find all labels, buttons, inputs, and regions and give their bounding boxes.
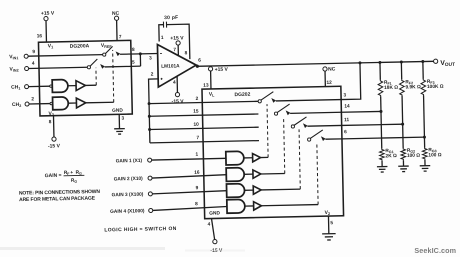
- node RF1/RG1: [379, 110, 382, 113]
- switch S202 lever: [277, 104, 290, 112]
- label RG1: [385, 148, 393, 154]
- wire GAIN 2 (X10) to driver: [152, 175, 226, 178]
- resistor RG1: [379, 148, 384, 160]
- label GAIN 1 (X1): [116, 158, 143, 165]
- value RG2: [407, 153, 420, 159]
- gain formula text: [45, 173, 62, 179]
- wire node to RG2: [402, 124, 404, 148]
- ground symbol RG1: [377, 167, 388, 173]
- label V1 (DG200A pin 16 supply): [48, 43, 54, 49]
- resistor RF3: [421, 79, 426, 96]
- driver 1 AND gate (DG200A): [52, 79, 68, 92]
- ground symbol RG2: [398, 166, 409, 172]
- svg-text:6: 6: [198, 58, 201, 64]
- pin label 13: [203, 83, 209, 89]
- wire DG200A V2 pin 8 stub: [53, 116, 55, 137]
- svg-text:VIN1: VIN1: [9, 54, 18, 60]
- label RG3: [428, 147, 436, 153]
- svg-text:5: 5: [330, 220, 333, 226]
- switch S2 contact arrow: [100, 64, 105, 69]
- driver 2 AND gate (DG202): [226, 168, 244, 182]
- control dashed line to S201: [267, 104, 268, 157]
- wire AND to buffer (DG202 driver 4): [245, 205, 254, 207]
- wire GAIN 1 (X1) to driver: [152, 158, 226, 160]
- value RF1: [384, 85, 398, 91]
- pin label 3 (DG200A GND): [121, 116, 124, 122]
- wire pin11 to RF2/RG2 node: [342, 124, 403, 125]
- svg-text:DG202: DG202: [234, 92, 250, 98]
- op-amp U2 LM101A triangle: [157, 44, 196, 87]
- wire pin16 +15V to DG200A: [45, 21, 47, 42]
- note text line 1: [19, 189, 101, 197]
- svg-text:100 Ω: 100 Ω: [428, 152, 441, 158]
- wire rail to RF3: [422, 62, 424, 79]
- svg-text:SeekIC.com: SeekIC.com: [414, 246, 456, 255]
- label -15 V (DG200A): [48, 143, 61, 149]
- svg-text:LOGIC HIGH = SWITCH ON: LOGIC HIGH = SWITCH ON: [104, 226, 177, 234]
- ground symbol (DG200A pin 3): [114, 129, 125, 135]
- terminal NC (DG202 pin 12): [323, 67, 327, 71]
- gain formula denominator: [71, 178, 78, 184]
- label VOUT: [440, 60, 455, 68]
- label GND (DG202): [209, 210, 220, 216]
- value RG1: [385, 153, 397, 159]
- logic high note: [104, 226, 177, 234]
- svg-text:GAIN 2 (X10): GAIN 2 (X10): [114, 176, 144, 183]
- svg-text:GAIN 3 (X100): GAIN 3 (X100): [112, 192, 144, 199]
- svg-text:GAIN 1 (X1): GAIN 1 (X1): [116, 158, 143, 165]
- svg-text:8: 8: [195, 201, 198, 207]
- svg-text:8: 8: [185, 50, 188, 56]
- wire pin6 to RF3/RG3 node: [342, 137, 424, 139]
- svg-text:3: 3: [343, 92, 346, 98]
- pin label 4 (op-amp): [173, 80, 176, 86]
- label 30 pF: [164, 15, 178, 21]
- svg-text:9.9K Ω: 9.9K Ω: [405, 84, 421, 90]
- wire S1 to junction (pin 8): [120, 53, 140, 55]
- wire RF3 to node: [423, 96, 426, 138]
- svg-text:GND: GND: [209, 210, 220, 216]
- svg-text:4: 4: [173, 80, 176, 86]
- control dashed line to S202: [284, 116, 285, 173]
- wire buffer2 output: [86, 101, 114, 104]
- svg-text:CH1: CH1: [11, 84, 20, 90]
- capacitor C1 30 pF plates: [163, 22, 166, 28]
- terminal GAIN 4 (X1000): [149, 208, 153, 212]
- driver 1 AND gate (DG202): [226, 151, 244, 165]
- svg-text:100 Ω: 100 Ω: [407, 153, 420, 159]
- node rail junction RF2: [400, 60, 403, 63]
- node feedback bus row 3: [148, 128, 151, 131]
- svg-text:+: +: [70, 171, 73, 176]
- label VIN2: [9, 66, 18, 72]
- svg-text:16: 16: [194, 170, 200, 176]
- compensation loop pin8 side: [167, 24, 190, 59]
- svg-text:VIN2: VIN2: [9, 66, 18, 72]
- wire CH2 to driver 2: [29, 103, 50, 105]
- svg-text:VL: VL: [209, 92, 215, 98]
- terminal -15V (DG202): [213, 239, 217, 243]
- wire AND to buffer (DG202 driver 1): [244, 157, 253, 159]
- label VREF: [101, 43, 113, 49]
- wire pin5 riser to junction: [139, 54, 141, 66]
- label RF2: [405, 79, 413, 85]
- pin label 2 (DG200A): [31, 96, 34, 102]
- wire pin4 stub: [176, 76, 178, 92]
- terminal NC (DG200A pin 7): [114, 16, 118, 20]
- wire node to RG3: [423, 137, 425, 147]
- resistor RG3: [422, 147, 427, 159]
- svg-text:DG200A: DG200A: [70, 43, 90, 49]
- driver 4 buffer (DG202): [254, 202, 262, 211]
- svg-text:10: 10: [193, 122, 199, 128]
- driver 1 buffer (DG202): [253, 153, 261, 162]
- pin label 11 (DG202 right): [344, 117, 350, 123]
- driver 1 input bubble: [50, 85, 52, 87]
- label -15 V (op-amp): [172, 99, 185, 105]
- terminal +15V (DG200A V1): [44, 16, 48, 20]
- svg-text:RG: RG: [71, 178, 78, 184]
- svg-text:7: 7: [119, 34, 122, 40]
- node rail junction RF1: [378, 61, 381, 64]
- switch S1 pole: [103, 53, 106, 56]
- svg-text:VOUT: VOUT: [440, 60, 455, 68]
- wire pin7 stub: [177, 45, 179, 56]
- wire pin12 stub: [324, 71, 326, 86]
- pin label 9: [32, 49, 35, 55]
- label +15 V top-left: [41, 11, 55, 17]
- wire VIN2 to switch S2 pole: [29, 67, 88, 68]
- svg-text:12: 12: [326, 80, 332, 86]
- wire DG202 pin5 stub: [327, 216, 329, 234]
- wire buffer 4 output: [261, 205, 318, 206]
- wire feedback bus to DG202 pin 2: [149, 101, 258, 103]
- wire AND1 to buffer 1: [68, 85, 76, 87]
- label RG2: [407, 148, 415, 154]
- wire feedback bus to DG202 pin 15: [149, 114, 258, 116]
- IC U1 DG200A analog switch body: [38, 40, 132, 116]
- svg-text:6: 6: [344, 129, 347, 135]
- wire RF2 to node: [401, 96, 404, 124]
- terminal +15V (op-amp pin 7): [176, 41, 180, 45]
- wire RG3 to ground: [424, 160, 426, 166]
- control dashed line to S1: [113, 50, 114, 102]
- wire S204 to DG202 pin 6: [325, 138, 342, 140]
- driver 2 buffer: [76, 98, 86, 108]
- terminal VIN2: [25, 67, 29, 71]
- wire S2 out (pin 5): [105, 65, 141, 68]
- pin label 1 (op-amp): [161, 35, 164, 41]
- svg-text:NC: NC: [112, 11, 120, 17]
- watermark SeekIC.com: [414, 246, 456, 255]
- wire AND to buffer (DG202 driver 2): [244, 173, 253, 175]
- terminal CH2: [25, 102, 29, 106]
- wire CH1 to driver 1: [29, 85, 50, 87]
- svg-text:15: 15: [193, 109, 199, 115]
- wire GAIN 3 (X100) to driver: [152, 191, 226, 194]
- driver 2 buffer (DG202): [253, 170, 261, 179]
- wire junction to op-amp pin 3: [140, 52, 157, 54]
- node junction pins 8/5: [139, 52, 142, 55]
- resistor RG2: [401, 148, 406, 160]
- wire buffer 2 output: [261, 172, 285, 175]
- svg-text:9: 9: [32, 49, 35, 55]
- svg-text:18K Ω: 18K Ω: [384, 85, 398, 91]
- label CH1: [11, 84, 20, 90]
- label DG202: [234, 92, 250, 98]
- svg-text:2: 2: [196, 96, 199, 102]
- driver 3 AND gate (DG202): [226, 184, 244, 198]
- terminal GAIN 3 (X100): [148, 192, 152, 196]
- resistor RF1: [378, 80, 383, 97]
- terminal +15V (DG202 VL pin 13): [208, 67, 212, 71]
- svg-text:2: 2: [31, 96, 34, 102]
- switch S203 contact arrow: [303, 123, 308, 128]
- svg-text:16: 16: [37, 33, 43, 39]
- pin label 8 (DG200A out): [132, 47, 135, 53]
- label V2 (DG200A bottom): [48, 111, 54, 117]
- switch S1 contact arrow: [116, 51, 121, 56]
- label RF3: [427, 79, 435, 85]
- label GAIN 4 (X1000): [110, 208, 145, 215]
- compensation loop pin1 side: [159, 25, 164, 42]
- svg-text:+15 V: +15 V: [170, 35, 184, 41]
- svg-text:9: 9: [195, 185, 198, 191]
- label NC (DG202): [328, 66, 336, 72]
- svg-text:30 pF: 30 pF: [164, 15, 178, 21]
- control dashed line to S203: [299, 129, 300, 189]
- pin label 7 (DG202 left): [196, 135, 199, 141]
- label CH2: [12, 102, 21, 108]
- label GAIN 3 (X100): [112, 192, 144, 199]
- svg-text:2K Ω: 2K Ω: [385, 153, 397, 159]
- pin label 8 (op-amp): [185, 50, 188, 56]
- pin label 6 (DG202 right): [344, 129, 347, 135]
- label GND (DG200A): [112, 108, 123, 114]
- pin label 14 (DG202 right): [344, 103, 350, 109]
- wire buffer 1 output: [260, 156, 268, 158]
- op-amp plus mark: [161, 78, 163, 80]
- pin label 12: [326, 80, 332, 86]
- pin label 8 (V2): [49, 119, 52, 125]
- wire rail to RF2: [400, 62, 402, 79]
- terminal GAIN 2 (X10): [148, 176, 152, 180]
- svg-text:4: 4: [208, 222, 211, 228]
- svg-text:7: 7: [173, 47, 176, 53]
- value RG3: [428, 152, 441, 158]
- pin label 6 (op-amp): [198, 58, 201, 64]
- node RF2/RG2: [401, 123, 404, 126]
- wire buffer1 output: [85, 84, 96, 86]
- driver 2 input bubble: [50, 102, 52, 104]
- wire DG200A GND pin 3 stub: [118, 114, 120, 128]
- wire RG1 to ground: [381, 161, 383, 167]
- terminal -15V (DG200A V2): [52, 137, 56, 141]
- wire AND2 to buffer 2: [68, 102, 76, 104]
- label RF1: [384, 80, 392, 86]
- node pin3 rail junction: [358, 61, 361, 64]
- pin label 10 (DG202 left): [193, 122, 199, 128]
- pin label 15 (DG202 left): [193, 109, 199, 115]
- label -15 V (DG202): [210, 248, 223, 254]
- label +15 V (op-amp): [170, 35, 184, 41]
- pin label 5 (DG200A out): [132, 60, 135, 66]
- switch S2 lever: [90, 59, 97, 66]
- value RF2: [405, 84, 421, 90]
- switch S203 pole: [291, 125, 294, 128]
- gain formula fraction bar: [64, 174, 85, 176]
- wire node to RG1: [380, 111, 383, 148]
- svg-text:CH2: CH2: [12, 102, 21, 108]
- svg-text:5: 5: [132, 60, 135, 66]
- pin label 16: [37, 33, 43, 39]
- label V2 (DG202): [325, 210, 331, 216]
- svg-text:NC: NC: [328, 66, 336, 72]
- pin label 4 (DG202 GND): [208, 222, 211, 228]
- label DG200A: [70, 43, 90, 49]
- svg-text:V1: V1: [48, 43, 54, 49]
- node feedback bus row 1: [148, 102, 151, 105]
- control dashed line to S2: [95, 68, 97, 85]
- svg-text:2: 2: [151, 72, 154, 78]
- wire buffer 3 output: [261, 188, 300, 191]
- pin label 9 (DG202 logic): [195, 185, 198, 191]
- svg-text:+15 V: +15 V: [41, 11, 55, 17]
- note text line 2: [19, 196, 96, 204]
- svg-text:RF: RF: [64, 170, 71, 176]
- svg-text:1: 1: [195, 152, 198, 158]
- wire output rail to VOUT: [196, 61, 433, 66]
- svg-text:ARE FOR METAL CAN PACKAGE: ARE FOR METAL CAN PACKAGE: [19, 196, 96, 204]
- wire feedback bus to DG202 pin 10: [150, 127, 259, 129]
- svg-text:13: 13: [203, 83, 209, 89]
- pin label 2 (op-amp): [151, 72, 154, 78]
- wire RG2 to ground: [402, 160, 404, 166]
- svg-text:1: 1: [161, 35, 164, 41]
- svg-text:V2: V2: [325, 210, 331, 216]
- gain formula numerator: [64, 170, 82, 176]
- svg-text:-15 V: -15 V: [48, 143, 61, 149]
- switch S201 pole: [258, 100, 261, 103]
- wire pin14 to RF1/RG1 node: [341, 110, 381, 113]
- switch S203 lever: [294, 117, 307, 125]
- svg-text:LM101A: LM101A: [161, 63, 180, 69]
- terminal GAIN 1 (X1): [148, 158, 152, 162]
- wire pin2 to feedback bus: [149, 79, 160, 143]
- label LM101A: [161, 63, 180, 69]
- svg-text:-15 V: -15 V: [172, 99, 185, 105]
- pin label 7 (op-amp): [173, 47, 176, 53]
- svg-text:GAIN =: GAIN =: [45, 173, 62, 179]
- svg-text:3: 3: [121, 116, 124, 122]
- wire S203 to DG202 pin 11: [307, 124, 341, 127]
- switch S201 lever: [261, 92, 274, 100]
- wire feedback bus to DG202 pin 7: [150, 141, 259, 143]
- label VIN1: [9, 54, 18, 60]
- svg-text:+15 V: +15 V: [215, 67, 229, 73]
- svg-text:11: 11: [344, 117, 350, 123]
- svg-text:8: 8: [49, 119, 52, 125]
- wire pin7 NC stub: [116, 20, 118, 40]
- switch S204 contact arrow: [321, 136, 326, 141]
- wire RF1 to node: [380, 96, 382, 111]
- label VL (DG202): [209, 92, 215, 98]
- wire S202 to DG202 pin 14: [290, 112, 341, 113]
- pin label 7 (DG200A): [119, 34, 122, 40]
- switch S204 lever: [310, 130, 323, 138]
- pin label 5 (DG202 V2): [330, 220, 333, 226]
- pin label 8 (DG202 logic): [195, 201, 198, 207]
- driver 3 buffer (DG202): [253, 186, 261, 195]
- node rail junction RF3: [421, 60, 424, 63]
- value RF3: [427, 84, 444, 90]
- pin label 2 (DG202 left): [196, 96, 199, 102]
- wire pin13 stub: [210, 71, 212, 89]
- op-amp minus mark: [160, 52, 162, 54]
- svg-text:7: 7: [196, 135, 199, 141]
- switch S202 contact arrow: [286, 110, 291, 115]
- wire AND to buffer (DG202 driver 3): [245, 189, 254, 191]
- driver 2 AND gate (DG200A): [53, 97, 69, 110]
- wire S201 to DG202 pin 3: [276, 100, 341, 101]
- pin label 16 (DG202 logic): [194, 170, 200, 176]
- scan noise band bottom: [0, 247, 245, 252]
- wire VIN1 to switch S1 pole: [28, 55, 103, 57]
- terminal CH1: [25, 85, 29, 89]
- svg-text:100K Ω: 100K Ω: [427, 84, 444, 90]
- wire pin3 to output rail: [340, 63, 360, 100]
- switch S1 lever: [105, 46, 112, 53]
- svg-text:14: 14: [344, 103, 350, 109]
- svg-text:GND: GND: [112, 108, 123, 114]
- resistor RF2: [399, 79, 404, 96]
- switch S2 pole: [87, 66, 90, 69]
- switch S201 contact arrow: [271, 98, 276, 103]
- pin label 4: [32, 61, 35, 67]
- driver 1 buffer: [76, 81, 86, 91]
- label GAIN 2 (X10): [114, 176, 144, 183]
- label +15 V (DG202): [215, 67, 229, 73]
- node feedback bus row 2: [148, 115, 151, 118]
- terminal VIN1: [24, 54, 28, 58]
- ground symbol (DG202 pin 5): [322, 234, 336, 240]
- wire GAIN 4 (X1000) to driver: [153, 206, 227, 210]
- svg-text:GAIN 4 (X1000): GAIN 4 (X1000): [110, 208, 145, 215]
- svg-text:3: 3: [149, 55, 152, 61]
- ground symbol RG3: [420, 166, 431, 172]
- driver 4 AND gate (DG202): [227, 199, 245, 213]
- pin label 3 (DG202 right): [343, 92, 346, 98]
- pin label 1 (DG202 logic): [195, 152, 198, 158]
- wire DG202 pin4 stub: [211, 218, 214, 239]
- switch S202 pole: [274, 112, 277, 115]
- IC U3 DG202 analog switch body: [202, 86, 344, 218]
- svg-text:8: 8: [132, 47, 135, 53]
- node op-amp output: [196, 65, 199, 68]
- pin label 3 (op-amp): [149, 55, 152, 61]
- control dashed line to S204: [317, 142, 318, 204]
- node RF3/RG3: [423, 136, 426, 139]
- svg-text:RG: RG: [76, 170, 83, 176]
- label NC top: [112, 11, 120, 17]
- wire rail to RF1: [379, 62, 381, 79]
- terminal VOUT: [434, 59, 438, 63]
- switch S204 pole: [308, 138, 311, 141]
- svg-text:4: 4: [32, 61, 35, 67]
- terminal -15V (op-amp pin 4): [175, 92, 179, 96]
